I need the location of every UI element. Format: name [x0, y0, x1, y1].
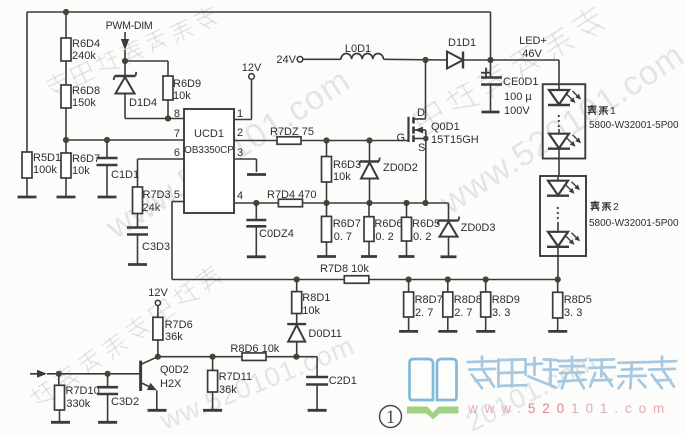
svg-text:0. 7: 0. 7 — [334, 231, 352, 243]
watermark diagonal hanzi top-left — [44, 5, 218, 98]
svg-text:R6D5: R6D5 — [412, 218, 440, 230]
svg-text:240k: 240k — [72, 50, 96, 62]
wire bottom rail — [172, 279, 344, 281]
node junction R6D3 top — [323, 137, 329, 143]
svg-text:C1D1: C1D1 — [111, 169, 139, 181]
terminal 12V — [249, 74, 255, 80]
node junction C0DZ4 — [253, 200, 259, 206]
capacitor C3D3 — [127, 226, 148, 229]
svg-text:R7D3: R7D3 — [143, 189, 171, 201]
node junction source — [422, 200, 428, 206]
wire R5D1 to ground — [26, 178, 28, 197]
svg-text:100V: 100V — [504, 105, 530, 117]
resistor R6D7 sense — [326, 203, 328, 216]
logo book icon — [410, 359, 434, 400]
svg-text:UCD1: UCD1 — [194, 128, 224, 140]
svg-text:Q0D1: Q0D1 — [431, 121, 460, 133]
node junction top rail / R6D4 — [63, 9, 69, 15]
logo hanzi 家电维修资料网 — [468, 361, 497, 362]
dots strip1 — [558, 115, 560, 117]
ground Q0D2 emitter — [148, 409, 167, 412]
LED D1 — [558, 84, 560, 90]
ground CE0D1 — [482, 111, 500, 114]
capacitor C0DZ4 — [255, 203, 257, 220]
ground R6D7b — [317, 255, 336, 258]
resistor R6D5 — [406, 203, 408, 217]
svg-text:46V: 46V — [522, 48, 542, 60]
capacitor CE0D1 electrolytic — [490, 60, 492, 77]
label strip2 — [591, 201, 599, 203]
svg-text:100k: 100k — [33, 164, 57, 176]
resistor R8D6 10k — [266, 356, 296, 358]
node PWM junction — [122, 58, 128, 64]
svg-text:1: 1 — [610, 105, 616, 117]
diode D1D1 — [447, 52, 463, 69]
capacitor C3D2 — [107, 374, 109, 387]
svg-text:36k: 36k — [165, 331, 183, 343]
svg-text:5: 5 — [174, 189, 180, 201]
svg-text:12V: 12V — [242, 62, 262, 74]
ground R8D8 — [438, 330, 457, 333]
node junction collector — [155, 354, 161, 360]
label strip1 — [588, 105, 596, 107]
node junction R8D7 — [406, 276, 412, 282]
ground R7D11 — [203, 409, 222, 412]
resistor R6D6 — [368, 203, 370, 217]
node junction D0D11/C2D1 — [293, 354, 299, 360]
svg-text:7: 7 — [174, 128, 180, 140]
svg-text:www.520101.com: www.520101.com — [467, 401, 671, 416]
node junction pin7/C1D1 — [104, 137, 110, 143]
ground R8D7 — [399, 330, 418, 333]
wire pin5 to bottom rail — [172, 201, 184, 203]
wire pin7 rail — [66, 139, 184, 141]
resistor R8D5 — [557, 280, 559, 293]
node junction R6D7b — [323, 200, 329, 206]
wire PWM to R6D9 — [125, 60, 168, 62]
logo green base — [407, 407, 459, 420]
wire left vertical — [26, 12, 28, 153]
node junction R6D6 — [366, 200, 372, 206]
node junction R8D8 — [445, 276, 451, 282]
node junction R8D9 — [483, 276, 489, 282]
node junction ZD0D2 top — [366, 137, 372, 143]
svg-text:R7D4 470: R7D4 470 — [267, 189, 317, 201]
node junction R8D5 — [555, 276, 561, 282]
svg-text:12V: 12V — [148, 287, 168, 299]
wire pin6 to R7D3 — [138, 158, 185, 160]
resistor R7D10 — [58, 374, 60, 386]
resistor R6D8 — [61, 85, 71, 108]
wire pin1 to 12V — [234, 119, 252, 121]
capacitor C1D1 — [106, 140, 108, 158]
svg-text:Q0D2: Q0D2 — [160, 364, 189, 376]
svg-text:C2D1: C2D1 — [329, 375, 357, 387]
svg-text:1: 1 — [386, 408, 395, 428]
resistor R7D4 470 — [278, 199, 302, 207]
svg-text:10k: 10k — [173, 90, 191, 102]
wire LED+ — [491, 59, 560, 61]
svg-text:D1D4: D1D4 — [129, 97, 157, 109]
svg-text:CE0D1: CE0D1 — [503, 76, 538, 88]
svg-text:R8D7: R8D7 — [415, 294, 443, 306]
wire top rail — [27, 11, 491, 13]
svg-text:R8D9: R8D9 — [492, 294, 520, 306]
resistor R6D4 — [61, 38, 71, 61]
wire pin8 rail — [125, 118, 184, 120]
node junction pin7/R6D7 — [63, 137, 69, 143]
zener diode ZD0D2 — [369, 141, 371, 162]
node junction R6D9/pin8 — [165, 115, 171, 121]
svg-text:24V: 24V — [276, 54, 296, 66]
svg-text:2. 7: 2. 7 — [454, 307, 472, 319]
svg-text:10k: 10k — [333, 171, 351, 183]
dots strip2 — [557, 207, 559, 209]
resistor R5D1 — [26, 152, 28, 154]
transistor Q0D1 MOSFET — [425, 60, 427, 119]
wire R6D7 ground — [65, 178, 67, 197]
resistor R6D7 (pin7) — [65, 140, 67, 153]
svg-text:6: 6 — [174, 147, 180, 159]
svg-text:330k: 330k — [66, 398, 90, 410]
zener diode ZD0D3 — [448, 203, 450, 221]
svg-text:R7D8 10k: R7D8 10k — [320, 263, 369, 275]
ground C2D1 — [308, 409, 327, 412]
resistor R7DZ 75 — [277, 137, 301, 145]
resistor R7D6 — [153, 317, 163, 340]
circled 1 — [380, 406, 402, 428]
svg-text:3. 3: 3. 3 — [564, 307, 582, 319]
wire to C2D1 — [296, 356, 317, 358]
node junction LED+/CE0D1 — [487, 57, 493, 63]
svg-text:LED+: LED+ — [519, 35, 547, 47]
svg-text:R6D7: R6D7 — [333, 218, 361, 230]
ground R5D1 — [18, 196, 37, 199]
svg-text:R7D10: R7D10 — [66, 385, 100, 397]
svg-text:R6D4: R6D4 — [72, 38, 100, 50]
wire strip2 to rail — [557, 256, 559, 280]
svg-text:2: 2 — [237, 127, 243, 139]
svg-text:R8D6 10k: R8D6 10k — [230, 343, 279, 355]
node junction R7D10 — [56, 371, 62, 377]
diode D0D11 — [287, 323, 306, 325]
svg-text:3: 3 — [237, 147, 243, 159]
svg-text:150k: 150k — [72, 97, 96, 109]
svg-text:3. 3: 3. 3 — [492, 307, 510, 319]
resistor R7D8 10k — [344, 276, 369, 284]
wire R6D4 column — [65, 12, 67, 38]
svg-text:2. 7: 2. 7 — [415, 307, 433, 319]
svg-text:R6D9: R6D9 — [173, 78, 201, 90]
ground C1D1 — [98, 196, 117, 199]
ground pin3 — [247, 173, 266, 176]
resistor R8D8 — [447, 280, 449, 293]
svg-text:R6D7: R6D7 — [72, 153, 100, 165]
node junction C3D2 — [105, 371, 111, 377]
svg-text:100 µ: 100 µ — [504, 91, 532, 103]
svg-text:C3D3: C3D3 — [142, 241, 170, 253]
ground R7D10 — [51, 421, 70, 424]
svg-text:8: 8 — [174, 108, 180, 120]
svg-text:2: 2 — [613, 201, 619, 213]
resistor R6D3 — [326, 141, 328, 157]
svg-text:D: D — [417, 107, 425, 119]
wire base rail — [47, 373, 141, 375]
svg-text:1: 1 — [237, 108, 243, 120]
svg-text:R7D11: R7D11 — [219, 371, 252, 383]
svg-text:R6D3: R6D3 — [333, 159, 361, 171]
wire pin4 rail — [234, 202, 449, 204]
ground R8D5 — [548, 330, 567, 333]
resistor R7D3 — [133, 187, 143, 214]
watermark diagonal hanzi bottom-left — [28, 264, 223, 410]
wire pin2 gate rail — [234, 140, 277, 142]
ground ZD0D3 — [441, 255, 457, 258]
LED strip 2 box — [540, 176, 586, 256]
svg-text:R7DZ 75: R7DZ 75 — [270, 126, 314, 138]
resistor R7D11 — [212, 357, 214, 371]
svg-text:ZD0D3: ZD0D3 — [461, 222, 496, 234]
svg-text:C0DZ4: C0DZ4 — [259, 228, 294, 240]
svg-text:OB3350CP: OB3350CP — [184, 145, 234, 156]
svg-text:C3D2: C3D2 — [111, 396, 139, 408]
svg-text:10k: 10k — [72, 165, 90, 177]
wire top rail drop — [490, 12, 492, 60]
svg-text:D0D11: D0D11 — [308, 328, 341, 340]
svg-text:H2X: H2X — [160, 378, 182, 390]
svg-text:R7D6: R7D6 — [165, 319, 193, 331]
svg-text:24k: 24k — [143, 202, 161, 214]
svg-text:10k: 10k — [302, 305, 320, 317]
svg-text:0. 2: 0. 2 — [413, 231, 431, 243]
wire strip1 to strip2 — [558, 149, 560, 176]
ground C3D3 — [128, 263, 147, 266]
LED D2 — [558, 129, 560, 134]
svg-text:R6D6: R6D6 — [374, 218, 402, 230]
resistor R8D7 — [408, 280, 410, 293]
input arrow — [30, 373, 38, 375]
node junction R6D5 — [403, 200, 409, 206]
ground R6D7 — [57, 196, 76, 199]
svg-text:R6D8: R6D8 — [72, 85, 100, 97]
wire R8D6 to collector node — [158, 356, 213, 358]
node junction R7D11 — [210, 354, 216, 360]
op IC UCD1 OB3350CP — [184, 109, 234, 213]
svg-text:0. 2: 0. 2 — [375, 231, 393, 243]
transistor Q0D2 — [139, 361, 142, 391]
svg-text:R5D1: R5D1 — [33, 152, 61, 164]
svg-text:PWM-DIM: PWM-DIM — [106, 20, 153, 32]
svg-text:R8D1: R8D1 — [302, 292, 330, 304]
wire pin3 to ground — [234, 158, 257, 160]
LED strip 1 box — [543, 84, 586, 158]
ground R6D6 — [361, 255, 377, 258]
svg-text:D1D1: D1D1 — [448, 37, 476, 49]
svg-text:R8D8: R8D8 — [454, 294, 482, 306]
ground R6D5 — [399, 255, 415, 258]
resistor R8D9 — [485, 280, 487, 293]
ground C0DZ4 — [247, 255, 266, 258]
ground C3D2 — [98, 421, 117, 424]
svg-text:36k: 36k — [219, 384, 237, 396]
node junction drain — [422, 57, 428, 63]
svg-text:ZD0D2: ZD0D2 — [383, 162, 418, 174]
svg-text:R8D5: R8D5 — [564, 294, 592, 306]
capacitor C2D1 — [306, 376, 328, 379]
svg-text:15T15GH: 15T15GH — [431, 134, 479, 146]
svg-text:4: 4 — [237, 190, 243, 202]
resistor R8D1 — [296, 280, 298, 292]
LED D4 — [557, 222, 559, 232]
watermark diagonal hanzi top-right — [412, 4, 607, 137]
node junction R8D1 — [294, 276, 300, 282]
LED D3 — [557, 176, 559, 181]
svg-text:5800-W32001-5P00: 5800-W32001-5P00 — [589, 120, 679, 131]
svg-text:S: S — [418, 142, 425, 154]
ground R8D9 — [476, 330, 495, 333]
zener diode D1D4 — [124, 61, 126, 76]
resistor R6D9 — [167, 61, 169, 76]
svg-text:5800-W32001-5P00: 5800-W32001-5P00 — [589, 218, 679, 229]
svg-text:G: G — [397, 132, 406, 144]
